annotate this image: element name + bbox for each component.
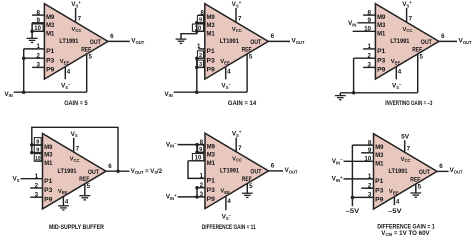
U3 pin 2 wire P3 [354, 57, 376, 59]
svg-text:7: 7 [76, 145, 80, 152]
svg-text:M1: M1 [377, 30, 386, 37]
wire VIN bus [14, 91, 87, 93]
svg-text:5: 5 [418, 183, 422, 190]
svg-text:M3: M3 [207, 151, 216, 158]
svg-text:P3: P3 [46, 57, 55, 64]
op-amp U6 LT1991 [374, 134, 438, 209]
junction P9/VIN+ [195, 195, 199, 199]
U1 pin 3 wire stub [32, 66, 44, 68]
svg-text:OUT: OUT [419, 169, 430, 176]
op-amp U3 LT1991 [375, 4, 439, 79]
svg-text:REF: REF [410, 176, 420, 183]
svg-text:REF: REF [81, 46, 91, 53]
svg-text:7: 7 [409, 16, 413, 23]
svg-text:4: 4 [396, 199, 400, 206]
svg-text:VCC: VCC [72, 27, 82, 33]
svg-text:7: 7 [407, 146, 411, 153]
op-amp U5 LT1991 [205, 133, 269, 208]
U5 pin 9 wire M3 [197, 151, 205, 153]
junction M3 (U5) [195, 151, 199, 155]
svg-text:M9: M9 [377, 14, 386, 21]
svg-text:VEE: VEE [60, 59, 70, 65]
junction M9/M3 [195, 143, 199, 147]
svg-text:7: 7 [238, 145, 242, 152]
svg-text:M1: M1 [44, 160, 53, 167]
U2 pin 6 wire (OUT) [268, 40, 290, 42]
U4 pin 10 wire M1 stub [34, 160, 42, 162]
U2 pin 8 wire stub [198, 14, 205, 16]
svg-text:OUT: OUT [421, 39, 432, 46]
svg-text:6: 6 [271, 33, 275, 40]
svg-text:P3: P3 [377, 57, 386, 64]
U4 pin 8 number (boxed) [34, 138, 41, 145]
U2 pin 7 wire (VCC supply) [235, 8, 237, 22]
junction M3 feedback [30, 151, 34, 155]
U2 pin 3 wire P9 [197, 66, 205, 68]
junction P3 (U5) [195, 186, 199, 190]
U2 pin 10 number (boxed) [192, 24, 203, 31]
U2 pin 4 wire (VEE supply) [225, 67, 227, 80]
svg-text:4: 4 [65, 199, 69, 206]
wire feedback OUT to M9/M3 [32, 127, 118, 171]
svg-text:VOUT = VS/2: VOUT = VS/2 [131, 169, 163, 175]
svg-text:4: 4 [227, 198, 231, 205]
ground G2 [176, 38, 187, 40]
svg-text:5: 5 [88, 53, 92, 60]
svg-text:M1: M1 [207, 30, 216, 37]
svg-text:OUT: OUT [250, 169, 261, 176]
svg-text:MID-SUPPLY BUFFER: MID-SUPPLY BUFFER [49, 224, 104, 231]
svg-text:4: 4 [67, 69, 71, 76]
svg-text:5: 5 [87, 183, 91, 190]
U3 pin 3 wire stub [363, 66, 375, 68]
junction P9 strap [195, 66, 199, 70]
ground G1 [31, 31, 33, 38]
U6 pin 7 wire (VCC supply) [404, 140, 406, 152]
U4 pin 7 wire (VCC supply) [73, 138, 75, 152]
junction VIN (U2) [195, 90, 199, 94]
U4 pin 8 wire M9 [32, 144, 43, 146]
svg-text:6: 6 [110, 33, 114, 40]
U6 pin 3 wire P9 [352, 196, 373, 198]
svg-text:7: 7 [78, 16, 82, 23]
U6 pin 6 wire (OUT) [437, 170, 449, 172]
svg-text:P9: P9 [44, 196, 53, 203]
svg-text:VEE: VEE [389, 189, 399, 195]
svg-text:REF: REF [412, 46, 422, 53]
svg-text:M3: M3 [207, 22, 216, 29]
U4 pin 9 wire M3 [32, 152, 43, 154]
junction P9/-5V rail [351, 196, 355, 200]
U6 pin 1 wire P1 from VIN+ [344, 178, 374, 180]
U4 pin 9 number (boxed) [34, 145, 41, 152]
svg-text:P9: P9 [207, 67, 216, 74]
svg-text:P1: P1 [207, 178, 216, 185]
junction feedback/OUT [116, 169, 120, 173]
svg-text:M9: M9 [44, 144, 53, 151]
svg-text:LT1991: LT1991 [59, 38, 78, 45]
svg-text:P3: P3 [207, 57, 216, 64]
svg-text:VCC: VCC [401, 157, 411, 163]
svg-text:M3: M3 [375, 152, 384, 159]
svg-text:LT1991: LT1991 [220, 38, 239, 45]
svg-text:LT1991: LT1991 [220, 168, 239, 175]
svg-text:VEE: VEE [220, 189, 230, 195]
svg-text:LT1991: LT1991 [390, 38, 409, 45]
op-amp U4 LT1991 [43, 134, 107, 209]
svg-text:M9: M9 [207, 144, 216, 151]
svg-text:5V: 5V [401, 133, 410, 140]
U6 pin 4 wire (VEE supply) [393, 197, 395, 206]
svg-text:P9: P9 [377, 67, 386, 74]
U4 pin 6 wire (OUT) [106, 170, 130, 172]
svg-text:P9: P9 [207, 196, 216, 203]
junction M9 feedback [30, 143, 34, 147]
svg-text:LT1991: LT1991 [388, 168, 407, 175]
svg-text:M3: M3 [46, 22, 55, 29]
ground G7 (REF U6) [410, 192, 421, 194]
U4 pin 5 wire (REF) [84, 184, 86, 196]
U3 pin 7 wire (VCC supply) [406, 8, 408, 22]
wire M9/M3 strap [31, 145, 33, 153]
junction M1 strap [195, 30, 199, 34]
svg-text:M3: M3 [377, 22, 386, 29]
svg-text:REF: REF [242, 176, 252, 183]
U5 pin 6 wire (OUT) [268, 170, 283, 172]
svg-text:VCC: VCC [403, 27, 413, 33]
U2 pin 3 number (boxed) [197, 60, 203, 67]
svg-text:GAIN = 14: GAIN = 14 [228, 100, 257, 107]
svg-text:5: 5 [419, 53, 423, 60]
svg-text:OUT: OUT [88, 169, 99, 176]
U2 pin 5 wire (REF) [246, 54, 248, 92]
svg-text:P9: P9 [46, 67, 55, 74]
U2 pin 9 wire M3 [197, 22, 205, 24]
U5 pin 8 wire M9 from VIN- [178, 144, 205, 146]
wire M9/P9 to -5V rail [351, 145, 353, 206]
op-amp U2 LT1991 [205, 4, 268, 79]
U1 pin 10 number (boxed) [32, 24, 43, 31]
U5 pin 7 wire (VCC supply) [235, 138, 237, 152]
junction P3/input [22, 56, 26, 60]
svg-text:P9: P9 [375, 197, 384, 204]
svg-text:–5V: –5V [388, 208, 403, 215]
svg-text:–5V: –5V [346, 208, 361, 215]
ground G6 (REF U5) [242, 192, 253, 194]
U3 pin 6 wire (OUT) [438, 40, 457, 42]
U4 pin 10 number (boxed) [34, 154, 41, 161]
svg-text:GAIN = 5: GAIN = 5 [64, 100, 88, 107]
U2 pin 1 wire stub [198, 48, 205, 50]
svg-text:6: 6 [271, 163, 275, 170]
ground G5 (REF) [79, 195, 90, 197]
svg-text:7: 7 [238, 16, 242, 23]
svg-text:P1: P1 [46, 48, 55, 55]
U2 pin 9 number (boxed) [197, 16, 203, 23]
svg-text:M3: M3 [44, 152, 53, 159]
U1 pin 1 wire P1 [24, 48, 45, 50]
U5 pin 10 wire M1 [188, 160, 205, 162]
U5 pin 5 wire (REF) [246, 184, 248, 194]
svg-text:1: 1 [200, 173, 204, 180]
svg-text:OUT: OUT [250, 39, 261, 46]
wire M3 to M1 strap [31, 23, 33, 32]
svg-text:M1: M1 [46, 30, 55, 37]
U1 pin 2 wire P3 [24, 57, 45, 59]
U1 pin 9 wire M3 [32, 22, 44, 24]
U6 pin 5 wire (REF) [415, 184, 417, 193]
U3 pin 4 wire (VEE supply) [395, 67, 397, 80]
svg-text:INVERTING GAIN = –3: INVERTING GAIN = –3 [385, 100, 433, 107]
wire P3/P9 to VIN [196, 58, 198, 92]
U2 pin 2 wire P3 [197, 57, 205, 59]
svg-text:VEE: VEE [391, 59, 401, 65]
U3 pin 5 wire (REF) [417, 54, 419, 93]
U1 pin 7 wire (VCC supply) [75, 8, 77, 22]
svg-text:5: 5 [249, 53, 253, 60]
op-amp U1 LT1991 [44, 4, 108, 79]
wire strap to ground [181, 31, 197, 39]
svg-text:P3: P3 [375, 187, 384, 194]
svg-text:VCC: VCC [232, 27, 242, 33]
ground G4 (VEE) [58, 205, 69, 207]
wire VIN bus (U2) [174, 91, 247, 93]
junction M1/ground [30, 30, 34, 34]
U1 pin 10 wire M1 [32, 30, 44, 32]
U1 pin 8 wire stub [32, 14, 44, 16]
svg-text:LT1991: LT1991 [57, 168, 76, 175]
svg-text:M1: M1 [207, 160, 216, 167]
svg-text:P3: P3 [44, 187, 53, 194]
wire P3 to VIN+ [196, 188, 198, 197]
svg-text:6: 6 [439, 163, 443, 170]
svg-text:P1: P1 [375, 178, 384, 185]
U1 pin 6 wire (OUT) [107, 40, 129, 42]
svg-text:6: 6 [108, 163, 112, 170]
svg-text:VEE: VEE [220, 59, 230, 65]
U5 pin 3 wire P9 from VIN+ [178, 196, 205, 198]
wire M9/M3 strap (U5) [196, 145, 198, 153]
svg-text:P1: P1 [207, 48, 216, 55]
U1 pin 5 wire (REF) [86, 54, 88, 92]
wire P1/P3 to VIN [23, 49, 25, 92]
U6 pin 10 wire M1 from VIN- [344, 160, 374, 162]
U6 pin 2 wire stub [361, 187, 373, 189]
svg-text:M9: M9 [207, 14, 216, 21]
U3 pin 10 wire stub [353, 30, 376, 32]
wire ground bus [340, 92, 417, 94]
wire M1 to P1 [188, 161, 205, 179]
svg-text:6: 6 [441, 33, 445, 40]
U4 pin 4 wire (VEE supply) [62, 197, 64, 206]
svg-text:P3: P3 [207, 187, 216, 194]
U3 pin 9 wire M3 from VIN [357, 22, 375, 24]
svg-text:VCC: VCC [232, 156, 242, 162]
svg-text:REF: REF [79, 176, 89, 183]
junction ground bus [352, 91, 356, 95]
junction M3 strap [195, 21, 199, 25]
U1 pin 4 wire (VEE supply) [64, 67, 66, 80]
svg-text:VCC: VCC [70, 157, 80, 163]
U6 pin 9 wire stub [361, 152, 373, 154]
junction VIN [22, 90, 26, 94]
U5 pin 10 number (boxed) [192, 154, 203, 161]
svg-text:M9: M9 [375, 144, 384, 151]
U3 pin 1 wire stub [363, 48, 375, 50]
U2 pin 10 wire M1 [197, 30, 205, 32]
U5 pin 4 wire (VEE supply) [225, 196, 227, 210]
wire P3 to ground bus [353, 58, 355, 93]
U5 pin 9 number (boxed) [198, 145, 204, 152]
svg-text:OUT: OUT [90, 39, 101, 46]
svg-text:P1: P1 [44, 178, 53, 185]
U3 pin 8 wire stub [363, 14, 375, 16]
ground G3 [339, 93, 341, 96]
U4 pin 1 wire P1 from VS [21, 178, 43, 180]
svg-text:5: 5 [249, 183, 253, 190]
svg-text:REF: REF [242, 46, 252, 53]
wire M3/M1 strap [196, 23, 198, 32]
U4 pin 2 wire stub [30, 187, 42, 189]
svg-text:P1: P1 [377, 48, 386, 55]
svg-text:DIFFERENCE GAIN = 11: DIFFERENCE GAIN = 11 [202, 224, 256, 231]
U6 pin 8 wire M9 [352, 144, 373, 146]
svg-text:M9: M9 [46, 14, 55, 21]
svg-text:M1: M1 [375, 160, 384, 167]
U2 pin 2 number (boxed) [197, 51, 203, 58]
U5 pin 2 wire P3 [197, 187, 205, 189]
svg-text:4: 4 [398, 69, 402, 76]
svg-text:VEE: VEE [58, 189, 68, 195]
svg-text:4: 4 [227, 69, 231, 76]
junction P3 strap [195, 56, 199, 60]
U4 pin 3 wire stub [30, 196, 42, 198]
